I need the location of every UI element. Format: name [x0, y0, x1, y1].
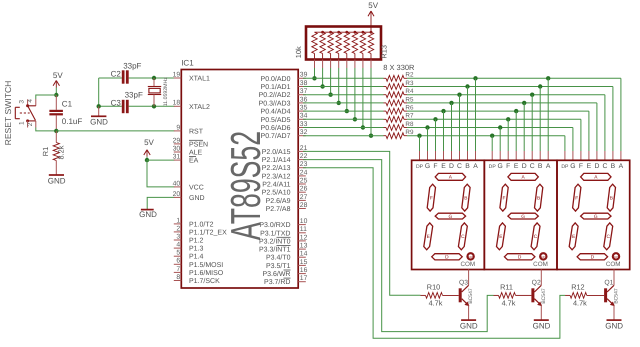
svg-text:5V: 5V	[368, 1, 378, 10]
svg-text:F: F	[575, 195, 578, 201]
svg-text:R13: R13	[380, 45, 389, 59]
svg-text:P2.0/A15: P2.0/A15	[262, 148, 291, 156]
display pin stub	[596, 151, 598, 160]
pin 34 P0.5/AD5	[298, 118, 306, 120]
display pin stub	[547, 151, 549, 160]
pin 31 EA	[174, 159, 182, 161]
svg-text:P0.2//AD2: P0.2//AD2	[259, 91, 291, 99]
svg-text:26: 26	[300, 186, 308, 193]
svg-text:B: B	[537, 195, 540, 201]
svg-text:P1.7/SCK: P1.7/SCK	[189, 277, 220, 285]
svg-text:COM: COM	[606, 261, 621, 268]
svg-text:D: D	[594, 163, 599, 170]
svg-text:31: 31	[173, 154, 181, 161]
svg-text:5V: 5V	[144, 138, 154, 147]
svg-text:A: A	[473, 163, 478, 170]
pin 14 P3.4/T0	[298, 256, 306, 258]
display LED3 body	[557, 160, 630, 269]
svg-text:C: C	[461, 234, 465, 240]
svg-text:3: 3	[18, 100, 25, 104]
node fanout junction	[538, 84, 542, 88]
display pin stub	[564, 151, 566, 160]
node P0 junction	[337, 101, 341, 105]
segment A (LED2)	[508, 173, 538, 180]
pin 37 P0.2//AD2	[298, 94, 306, 96]
transistor Q2 BC547	[531, 288, 534, 302]
resistor R4	[384, 94, 387, 96]
segment C (LED2)	[531, 223, 540, 250]
node fanout junction	[530, 93, 534, 97]
wire display drop	[451, 103, 453, 151]
svg-text:R9: R9	[405, 129, 414, 136]
display pin stub	[507, 151, 509, 160]
wire display drop	[475, 78, 477, 151]
svg-text:27: 27	[300, 194, 308, 201]
pin 10 P3.0/RXD	[298, 224, 306, 226]
pin 1 P1.0/T2	[174, 223, 182, 225]
svg-text:Q3: Q3	[459, 279, 468, 286]
svg-text:P1.6/MISO: P1.6/MISO	[189, 269, 224, 277]
pin 23 P2.2/A13	[298, 167, 306, 169]
pin 3 P1.2	[174, 239, 182, 241]
resistor R5	[384, 102, 387, 104]
svg-text:P3.2/INT0: P3.2/INT0	[259, 237, 291, 245]
resistor R9	[384, 135, 387, 137]
node fanout junction	[465, 84, 469, 88]
transistor Q1 BC547	[604, 288, 607, 302]
R13 element 6	[352, 32, 357, 53]
wire EA net	[147, 159, 175, 161]
segment F (LED1)	[427, 184, 435, 211]
segment D (LED2)	[504, 254, 535, 260]
svg-text:22: 22	[300, 153, 308, 160]
svg-text:12: 12	[300, 234, 308, 241]
resistor R6	[384, 110, 387, 112]
svg-text:4.7k: 4.7k	[429, 299, 443, 308]
svg-text:D: D	[449, 163, 454, 170]
node RST top junction	[54, 93, 58, 97]
pin 13 P3.3/INT1	[298, 248, 306, 250]
pin 8 P1.7/SCK	[174, 280, 182, 282]
resistor R3	[384, 86, 387, 88]
svg-text:GND: GND	[533, 322, 551, 331]
transistor Q3 BC547	[459, 288, 462, 302]
wire display drop	[467, 87, 469, 152]
display pin stub	[620, 151, 622, 160]
segment D (LED1)	[432, 254, 463, 260]
svg-text:14: 14	[300, 251, 308, 258]
svg-text:18: 18	[173, 100, 181, 107]
svg-text:C2: C2	[111, 70, 122, 79]
pin 2 P1.1/T2_EX	[174, 231, 182, 233]
svg-text:P3.5/T1: P3.5/T1	[266, 262, 291, 270]
display pin stub	[435, 151, 437, 160]
wire P0.2 net	[303, 94, 384, 96]
svg-text:D: D	[518, 255, 522, 261]
svg-text:A: A	[619, 163, 624, 170]
svg-text:E: E	[441, 163, 446, 170]
resistor R1	[55, 131, 57, 143]
pin 9 RST	[174, 130, 182, 132]
resistor network R13 body	[306, 27, 381, 60]
svg-text:B: B	[538, 163, 543, 170]
svg-text:23: 23	[300, 161, 308, 168]
wire segment net	[407, 127, 573, 129]
svg-text:9: 9	[176, 124, 180, 131]
resistor R12	[565, 294, 570, 296]
node fanout junction	[506, 117, 510, 121]
wire R13 pin drop	[338, 60, 340, 69]
node RST bottom junction	[54, 129, 58, 133]
svg-text:G: G	[498, 163, 503, 170]
pin 40 VCC	[174, 186, 182, 188]
pin 33 P0.6/AD6	[298, 127, 306, 129]
svg-text:33pF: 33pF	[125, 90, 143, 99]
wire R13 pin drop	[346, 60, 348, 69]
ground (IC pin 20)	[141, 209, 154, 211]
svg-text:2: 2	[27, 122, 34, 126]
svg-text:25: 25	[300, 177, 308, 184]
svg-text:35: 35	[300, 105, 308, 112]
svg-text:4: 4	[176, 242, 180, 249]
R13 element 3	[328, 32, 333, 53]
svg-text:R7: R7	[405, 113, 414, 120]
node P0 junction	[328, 93, 332, 97]
svg-text:F: F	[579, 163, 583, 170]
svg-text:15: 15	[300, 259, 308, 266]
wire VCC net	[147, 160, 175, 187]
wire segment net	[407, 118, 581, 120]
svg-text:Q2: Q2	[532, 279, 541, 286]
display pin stub	[539, 151, 541, 160]
node fanout junction	[457, 93, 461, 97]
svg-text:GND: GND	[48, 177, 66, 186]
wire display drop	[523, 103, 525, 151]
svg-text:E: E	[572, 234, 575, 240]
wire display drop	[596, 103, 598, 151]
R13 element 5	[344, 32, 349, 53]
pin 18 XTAL2	[174, 105, 182, 107]
svg-text:B: B	[610, 195, 613, 201]
display LED2 body	[484, 160, 557, 269]
pin 12 P3.2/INT0	[298, 240, 306, 242]
svg-text:R4: R4	[405, 88, 414, 95]
svg-text:RESET SWITCH: RESET SWITCH	[3, 81, 13, 146]
svg-text:R5: R5	[405, 96, 414, 103]
node EA junction	[145, 158, 149, 162]
svg-text:VCC: VCC	[189, 184, 204, 191]
svg-text:P1.3: P1.3	[189, 246, 204, 253]
svg-text:P2.6/A9: P2.6/A9	[266, 197, 291, 205]
svg-text:R10: R10	[427, 283, 440, 292]
svg-text:4: 4	[27, 99, 34, 103]
svg-text:D: D	[445, 255, 449, 261]
svg-text:C1: C1	[62, 100, 73, 109]
wire P0.3 net	[303, 102, 384, 104]
node fanout junction	[498, 125, 502, 129]
segment D (LED3)	[577, 254, 608, 260]
svg-text:36: 36	[300, 96, 308, 103]
segment A (LED1)	[435, 173, 465, 180]
svg-text:F: F	[506, 163, 510, 170]
pin 7 P1.6/MISO	[174, 271, 182, 273]
wire segment net	[407, 110, 589, 112]
wire P0.0 net	[303, 77, 384, 79]
R13 common rail	[315, 31, 372, 33]
R13 element 2	[320, 32, 325, 53]
svg-text:1: 1	[176, 217, 180, 224]
svg-text:P0.5/AD5: P0.5/AD5	[261, 116, 291, 124]
wire	[36, 128, 57, 131]
wire display drop	[580, 119, 582, 151]
svg-text:28: 28	[300, 202, 308, 209]
display pin stub	[604, 151, 606, 160]
segment E (LED3)	[569, 223, 578, 250]
display pin stub	[531, 151, 533, 160]
svg-text:GND: GND	[460, 322, 478, 331]
switch S1 reset pushbutton	[35, 99, 37, 106]
ground (R1)	[49, 174, 64, 176]
svg-text:21: 21	[300, 145, 308, 152]
wire P0.1 net	[303, 86, 384, 88]
pin 32 P0.7/AD7	[298, 135, 306, 137]
svg-text:C: C	[606, 234, 610, 240]
svg-text:29: 29	[173, 137, 181, 144]
wire display drop	[531, 95, 533, 151]
svg-text:BC547: BC547	[614, 288, 620, 304]
display pin stub	[467, 151, 469, 160]
node P0 junction	[345, 109, 349, 113]
pin 16 P3.6/WR	[298, 273, 306, 275]
svg-text:34: 34	[300, 113, 308, 120]
svg-text:19: 19	[173, 71, 181, 78]
R13 element 1	[312, 32, 317, 53]
wire display drop	[620, 78, 622, 151]
svg-text:P2.1/A14: P2.1/A14	[262, 156, 291, 164]
svg-text:P1.5/MOSI: P1.5/MOSI	[189, 261, 223, 269]
svg-text:PSEN: PSEN	[189, 141, 208, 148]
svg-text:XTAL2: XTAL2	[189, 104, 210, 111]
pin 17 P3.7/RD	[298, 281, 306, 283]
svg-text:10: 10	[300, 218, 308, 225]
svg-text:DP: DP	[614, 255, 618, 259]
display pin stub	[572, 151, 574, 160]
display pin stub	[491, 151, 493, 160]
svg-text:P0.6/AD6: P0.6/AD6	[261, 124, 291, 132]
svg-text:BC547: BC547	[468, 288, 474, 304]
svg-text:GND: GND	[605, 322, 623, 331]
wire R13 pin drop	[314, 60, 316, 69]
node P0 junction	[361, 125, 365, 129]
decimal point DP (LED2)	[540, 253, 546, 259]
segment G (LED2)	[508, 213, 538, 219]
wire display drop	[547, 78, 549, 151]
wire display drop	[539, 87, 541, 152]
wire display drop	[572, 128, 574, 152]
svg-text:C3: C3	[111, 99, 122, 108]
svg-text:GND: GND	[139, 210, 157, 219]
wire segment net	[407, 77, 621, 79]
svg-text:P2.7/A8: P2.7/A8	[266, 205, 291, 213]
pin 39 P0.0/AD0	[298, 77, 306, 79]
crystal Q1 11.0592MHz	[153, 78, 155, 86]
svg-text:32: 32	[300, 129, 308, 136]
segment B (LED2)	[535, 184, 543, 211]
node fanout junction	[433, 117, 437, 121]
svg-text:R12: R12	[571, 283, 584, 292]
display pin stub	[427, 151, 429, 160]
resistor R11	[494, 294, 499, 296]
svg-text:DP: DP	[541, 255, 545, 259]
pin 21 P2.0/A15	[298, 150, 306, 152]
display LED1 body	[412, 160, 485, 269]
svg-text:GND: GND	[189, 195, 205, 202]
pin 28 P2.7/A8	[298, 208, 306, 210]
svg-text:30: 30	[173, 145, 181, 152]
display pin stub	[515, 151, 517, 160]
svg-text:BC547: BC547	[541, 288, 547, 304]
pin 24 P2.3/A12	[298, 175, 306, 177]
wire GND pin 20 net	[147, 197, 174, 209]
wire P0.5 net	[303, 118, 384, 120]
resistor R8	[384, 127, 387, 129]
node fanout junction	[490, 134, 494, 138]
segment F (LED3)	[573, 184, 581, 211]
pin 29 PSEN	[174, 143, 182, 145]
pin 36 P0.3//AD3	[298, 102, 306, 104]
segment E (LED2)	[497, 223, 506, 250]
pin 38 P0.1/AD1	[298, 86, 306, 88]
svg-text:P1.1/T2_EX: P1.1/T2_EX	[189, 228, 227, 236]
svg-text:DP: DP	[469, 255, 473, 259]
svg-text:G: G	[570, 163, 575, 170]
svg-text:F: F	[430, 195, 433, 201]
wire segment net	[407, 94, 605, 96]
svg-text:P3.7/RD: P3.7/RD	[264, 278, 290, 286]
node P0 junction	[353, 117, 357, 121]
svg-text:C: C	[457, 163, 462, 170]
wire display drop	[491, 136, 493, 151]
svg-text:8: 8	[176, 274, 180, 281]
display pin stub	[459, 151, 461, 160]
svg-text:DP: DP	[561, 164, 569, 170]
svg-text:17: 17	[300, 275, 308, 282]
svg-text:2: 2	[176, 225, 180, 232]
svg-text:F: F	[433, 163, 437, 170]
wire display drop	[443, 111, 445, 151]
node fanout junction	[546, 76, 550, 80]
wire cap ground rail	[98, 78, 100, 106]
svg-text:B: B	[465, 163, 470, 170]
svg-text:4.7k: 4.7k	[573, 299, 587, 308]
svg-text:D: D	[522, 163, 527, 170]
svg-text:XTAL1: XTAL1	[189, 76, 210, 83]
pin 27 P2.6/A9	[298, 199, 306, 201]
svg-text:P3.3/INT1: P3.3/INT1	[259, 246, 291, 254]
svg-text:4.7k: 4.7k	[502, 299, 516, 308]
svg-text:P1.4: P1.4	[189, 254, 204, 261]
display pin stub	[419, 151, 421, 160]
decimal point DP (LED1)	[467, 253, 473, 259]
display pin stub	[523, 151, 525, 160]
wire XTAL2 net	[99, 105, 122, 107]
svg-text:COM: COM	[460, 261, 475, 268]
wire segment net	[407, 102, 597, 104]
svg-text:R2: R2	[405, 72, 414, 79]
svg-text:P0.7/AD7: P0.7/AD7	[261, 132, 291, 140]
wire display drop	[459, 95, 461, 151]
svg-text:39: 39	[300, 72, 308, 79]
svg-text:38: 38	[300, 80, 308, 87]
resistor R7	[384, 118, 387, 120]
pin 30 ALE	[174, 151, 182, 153]
R13 element 7	[360, 32, 365, 53]
svg-text:P1.2: P1.2	[189, 238, 204, 245]
svg-text:IC1: IC1	[181, 58, 194, 67]
wire display drop	[507, 119, 509, 151]
svg-text:6: 6	[176, 258, 180, 265]
svg-text:A: A	[546, 163, 551, 170]
svg-text:5V: 5V	[53, 71, 63, 80]
pin 20 GND	[174, 196, 182, 198]
pin 19 XTAL1	[174, 77, 182, 79]
svg-text:B: B	[611, 163, 616, 170]
wire display drop	[427, 128, 429, 152]
wire	[36, 95, 57, 99]
wire RST net	[56, 130, 174, 132]
svg-text:P0.4/AD4: P0.4/AD4	[261, 108, 291, 116]
pin 35 P0.4/AD4	[298, 110, 306, 112]
display pin stub	[580, 151, 582, 160]
segment E (LED1)	[424, 223, 433, 250]
svg-text:10k: 10k	[294, 46, 303, 58]
segment C (LED3)	[604, 223, 613, 250]
node fanout junction	[449, 101, 453, 105]
svg-text:E: E	[499, 234, 502, 240]
svg-text:R11: R11	[500, 283, 513, 292]
wire P0.4 net	[303, 110, 384, 112]
segment G (LED1)	[435, 213, 465, 219]
node P0 junction	[312, 76, 316, 80]
svg-text:7: 7	[176, 266, 180, 273]
svg-text:G: G	[521, 214, 525, 220]
node P0 junction	[320, 84, 324, 88]
svg-text:P2.3/A12: P2.3/A12	[262, 172, 291, 180]
wire P2.0 net	[303, 151, 421, 295]
node fanout junction	[441, 109, 445, 113]
svg-text:P2.4/A11: P2.4/A11	[262, 181, 290, 189]
wire display drop	[435, 119, 437, 151]
svg-text:E: E	[514, 163, 519, 170]
resistor R2	[384, 77, 387, 79]
display pin stub	[451, 151, 453, 160]
pin 25 P2.4/A11	[298, 183, 306, 185]
pin 26 P2.5/A10	[298, 191, 306, 193]
segment F (LED2)	[500, 184, 508, 211]
pin 11 P3.1/TXD	[298, 232, 306, 234]
svg-text:P1.0/T2: P1.0/T2	[189, 220, 214, 228]
R13 element 4	[336, 32, 341, 53]
ground (crystal caps)	[98, 106, 100, 116]
svg-text:E: E	[587, 163, 592, 170]
display pin stub	[612, 151, 614, 160]
svg-text:G: G	[594, 214, 598, 220]
svg-text:P2.2/A13: P2.2/A13	[262, 164, 291, 172]
segment C (LED1)	[458, 223, 467, 250]
wire segment net	[407, 86, 613, 88]
wire segment net	[407, 135, 565, 137]
pin 22 P2.1/A14	[298, 159, 306, 161]
